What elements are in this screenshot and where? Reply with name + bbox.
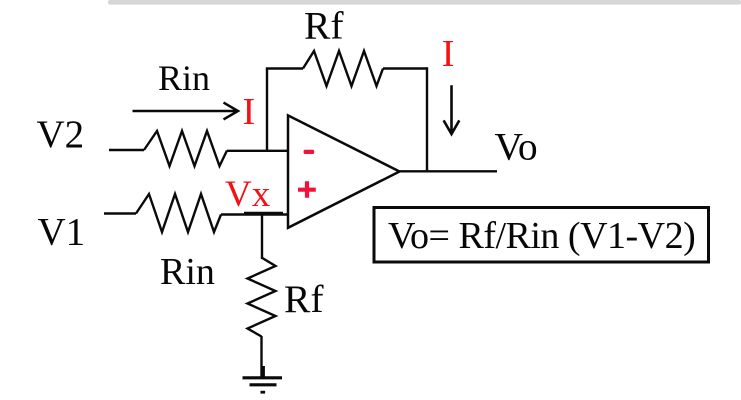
op-amp plus sign (298, 181, 316, 198)
svg-text:Rf: Rf (304, 3, 344, 47)
wire node Vx to grounded resistor (261, 215, 263, 259)
svg-text:Rin: Rin (158, 58, 210, 98)
resistor Rf (feedback) (303, 51, 383, 86)
svg-text:Vo: Vo (495, 124, 538, 168)
arrow current I down (444, 85, 460, 134)
op-amp U1 (288, 115, 400, 227)
wire feedback right vertical (426, 67, 428, 171)
formula box (374, 208, 709, 263)
wire resistor to inverting input (227, 150, 288, 152)
wire V1 input (104, 212, 136, 214)
resistor Rf (grounded) (248, 258, 276, 337)
svg-text:Vx: Vx (225, 174, 271, 215)
wire ground lead overdraw (262, 366, 265, 378)
svg-text:I: I (442, 33, 455, 75)
svg-text:V1: V1 (38, 211, 86, 254)
op-amp minus sign (304, 150, 315, 154)
ground dot (261, 391, 266, 394)
wire output (400, 170, 498, 172)
ground bar 2 (250, 383, 277, 386)
resistor Rin (V1 branch) (136, 194, 221, 232)
arrow Rin current direction (133, 103, 239, 120)
svg-text:Vo= Rf/Rin (V1-V2): Vo= Rf/Rin (V1-V2) (388, 215, 695, 257)
wire resistor to non-inverting input (221, 213, 288, 215)
svg-text:Rf: Rf (284, 277, 324, 321)
wire V2 input (109, 149, 144, 151)
svg-text:V2: V2 (37, 113, 85, 156)
wire feedback top right (383, 67, 427, 69)
resistor Rin (V2 branch) (144, 131, 227, 166)
top grey slide-edge bar (108, 0, 741, 5)
wire resistor to ground (260, 336, 262, 378)
svg-text:Rin: Rin (160, 251, 215, 293)
wire node Vx overdraw (244, 212, 283, 215)
ground bar 1 (243, 376, 283, 379)
wire feedback tap vertical (266, 69, 268, 151)
wire feedback top left (266, 67, 303, 69)
svg-text:I: I (243, 91, 256, 133)
